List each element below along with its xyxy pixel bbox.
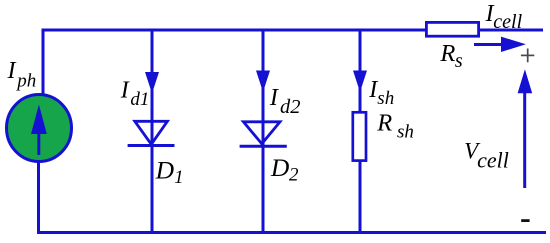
wire: bottom rail [37, 231, 546, 234]
current arrow Ish [353, 71, 367, 93]
svg-text:D: D [270, 153, 290, 182]
current source Iph: green circle body [7, 95, 72, 162]
wire: left vertical from current source down to bottom rail [37, 160, 40, 234]
svg-text:d1: d1 [130, 89, 149, 110]
svg-text:ph: ph [15, 71, 36, 92]
current arrow Id2 [256, 71, 270, 93]
wire: top rail right segment (Rs to + output terminal) [479, 29, 543, 32]
svg-text:s: s [455, 50, 463, 72]
svg-text:sh: sh [377, 88, 394, 109]
minus terminal sign [521, 219, 529, 222]
svg-text:2: 2 [289, 165, 299, 186]
diode D1: cathode bar [128, 144, 175, 147]
plus terminal sign [521, 49, 534, 63]
wire: diode D1 branch vertical [151, 29, 154, 235]
resistor Rsh: body [353, 112, 366, 160]
svg-text:I: I [120, 78, 130, 104]
voltage arrow Vcell: stem [523, 91, 526, 188]
diode D2: cathode bar [240, 145, 287, 148]
svg-text:D: D [155, 155, 175, 184]
wire: Rsh branch vertical upper [359, 29, 362, 113]
svg-text:cell: cell [477, 147, 509, 172]
svg-text:sh: sh [397, 121, 414, 142]
current arrow Icell: stem [474, 43, 503, 46]
wire: Rsh branch vertical lower [359, 161, 362, 234]
wire: diode D2 branch vertical [262, 29, 265, 235]
diode D2: triangle [243, 122, 280, 144]
resistor Rs: body [426, 22, 478, 36]
svg-text:I: I [7, 58, 17, 84]
svg-text:I: I [269, 85, 279, 111]
wire: left vertical from top rail down to current source [42, 29, 45, 97]
svg-text:R: R [439, 40, 455, 67]
diode D1: triangle [135, 121, 168, 144]
current source Iph: arrow stem [37, 130, 40, 155]
svg-text:d2: d2 [280, 96, 301, 118]
svg-text:cell: cell [493, 11, 522, 33]
current arrow Icell: head [501, 37, 526, 52]
current arrow Id1 [145, 72, 159, 94]
svg-text:R: R [376, 109, 392, 136]
voltage arrow Vcell: head [518, 69, 533, 93]
svg-text:1: 1 [174, 167, 184, 188]
wire: top rail left segment (from top-left corner to Rs) [42, 29, 427, 32]
current source Iph: arrow head [31, 105, 47, 135]
